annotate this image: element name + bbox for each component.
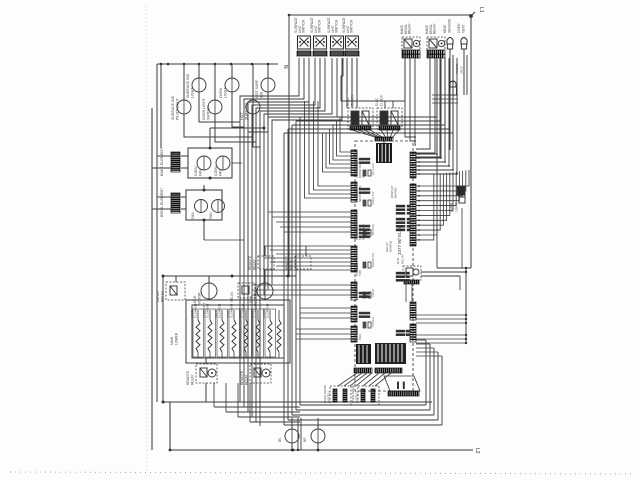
svg-text:SWITCH: SWITCH — [318, 19, 322, 33]
svg-text:TOUCH: TOUCH — [371, 317, 375, 327]
svg-text:RELAY: RELAY — [408, 23, 412, 34]
svg-text:LOCK SW: LOCK SW — [371, 191, 375, 205]
svg-text:P5 HSI: P5 HSI — [355, 291, 359, 300]
svg-text:FAN: FAN — [191, 212, 195, 219]
svg-text:SWITCH: SWITCH — [302, 19, 306, 33]
svg-text:RELAY: RELAY — [244, 374, 248, 385]
svg-text:CLOCK: CLOCK — [350, 94, 354, 106]
svg-text:ELEMENT: ELEMENT — [266, 303, 270, 318]
svg-text:PILOT LIGHT: PILOT LIGHT — [175, 97, 179, 120]
svg-text:ELEMENT: ELEMENT — [242, 303, 246, 318]
svg-text:ELEMENT: ELEMENT — [218, 303, 222, 318]
svg-text:MOTOR: MOTOR — [253, 292, 257, 305]
svg-text:N: N — [282, 65, 288, 69]
svg-text:ELEMENT: ELEMENT — [254, 303, 258, 318]
svg-text:ELEMENT: ELEMENT — [194, 303, 198, 318]
svg-text:LIGHT: LIGHT — [190, 87, 194, 98]
svg-text:PAD: PAD — [358, 334, 362, 340]
svg-text:LOWER: LOWER — [174, 332, 178, 345]
svg-text:DOOR SW: DOOR SW — [371, 253, 375, 267]
svg-text:FAN: FAN — [198, 169, 202, 176]
svg-text:▌▐: ▌▐ — [397, 381, 405, 389]
svg-text:FAN: FAN — [218, 169, 222, 176]
svg-text:BAKE ELEMENT: BAKE ELEMENT — [160, 147, 164, 176]
svg-text:BK-1 SW: BK-1 SW — [371, 163, 375, 175]
svg-text:RELAY: RELAY — [190, 374, 194, 385]
svg-text:ELEMENT: ELEMENT — [206, 303, 210, 318]
svg-text:RELAY: RELAY — [433, 23, 437, 34]
svg-text:L2: L2 — [474, 448, 480, 454]
svg-text:SWITCH: SWITCH — [335, 19, 339, 33]
svg-text:JACK: JACK — [459, 66, 463, 74]
svg-text:SENSOR: SENSOR — [447, 18, 451, 33]
svg-text:FAN: FAN — [209, 212, 213, 219]
svg-text:LIGHT: LIGHT — [223, 87, 227, 98]
svg-text:LIGHT: LIGHT — [454, 203, 458, 212]
svg-text:TOP: TOP — [358, 270, 362, 276]
svg-text:SWITCH: SWITCH — [326, 392, 330, 403]
svg-text:IND: IND — [259, 91, 263, 98]
svg-text:L1: L1 — [478, 7, 484, 13]
svg-text:SWITCH: SWITCH — [350, 19, 354, 33]
svg-text:RELAY: RELAY — [252, 259, 256, 270]
svg-text:BOARD: BOARD — [393, 186, 397, 198]
svg-text:MOTOR: MOTOR — [197, 292, 201, 305]
svg-text:INPUT: INPUT — [361, 169, 365, 178]
svg-text:RELAY: RELAY — [160, 290, 164, 302]
svg-text:ELEMENT: ELEMENT — [230, 303, 234, 318]
svg-text:VENT: VENT — [461, 24, 465, 33]
svg-text:SWITCH: SWITCH — [206, 105, 210, 120]
svg-text:CLOCK: CLOCK — [379, 94, 383, 106]
svg-text:SWITCH: SWITCH — [354, 392, 358, 403]
svg-text:BR: BR — [303, 437, 307, 442]
svg-text:MOTOR: MOTOR — [371, 224, 375, 235]
svg-text:LIGHT: LIGHT — [371, 288, 375, 297]
svg-text:RELAY: RELAY — [289, 259, 293, 270]
svg-text:BOARD: BOARD — [389, 240, 393, 252]
svg-text:BROIL ELEMENT: BROIL ELEMENT — [160, 187, 164, 217]
